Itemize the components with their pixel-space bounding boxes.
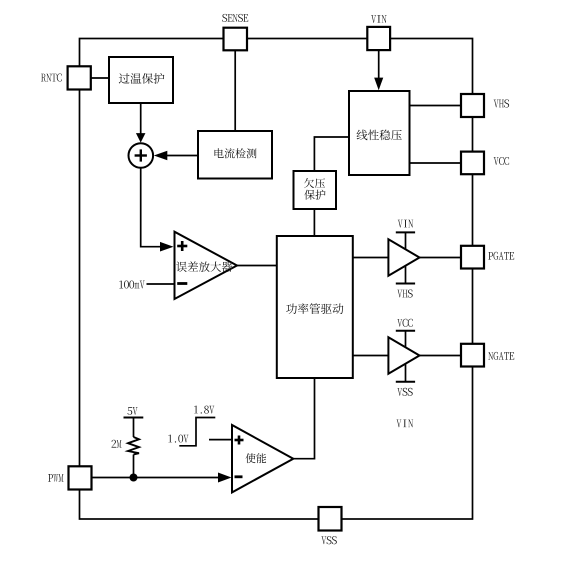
VSS rail bar below NGATE buffer (396, 381, 415, 383)
wire NGATE buffer to NGATE pin (420, 355, 462, 357)
pin RNTC (68, 66, 91, 89)
pin VSS (319, 507, 342, 531)
label VHS (494, 99, 509, 107)
buffer driver to NGATE (405, 332, 407, 350)
wire current-sense to summing node (arrow left) (166, 155, 198, 157)
wire UVLO to linear regulator (314, 137, 349, 172)
op-amp error amplifier 误差放大器 (175, 232, 238, 299)
error amp + sign (177, 245, 187, 248)
enable + sign (235, 439, 244, 442)
resistor 2M leads (133, 418, 135, 437)
label 2M (112, 440, 122, 448)
wire VIN pin down to linear regulator (arrow) (378, 50, 380, 79)
wire linear regulator to VCC pin (410, 162, 462, 164)
label SENSE (222, 14, 248, 22)
VIN rail bar above PGATE buffer (396, 231, 415, 233)
label 1.0V (168, 435, 188, 443)
wire RNTC to over-temp block (91, 77, 110, 79)
resistor 2M zigzag (128, 437, 139, 455)
pin PGATE (461, 246, 484, 269)
block over-temperature protection 过温保护 (109, 57, 173, 103)
VHS rail bar below PGATE buffer (396, 283, 415, 285)
wire error-amp output to driver block (236, 265, 277, 267)
label 5V (127, 407, 137, 415)
VCC rail bar above NGATE buffer (396, 330, 415, 332)
wire enable output up to driver block bottom (293, 378, 315, 459)
pin VHS (461, 94, 484, 117)
block UVLO 欠压保护 (294, 171, 337, 209)
error amp - sign (177, 282, 187, 285)
pin VIN (367, 27, 390, 50)
pin VCC (461, 152, 484, 175)
label VIN top (371, 15, 386, 23)
wire linear regulator to VHS pin (410, 105, 462, 107)
pin PWM (69, 466, 92, 489)
wire driver to PGATE buffer (353, 257, 388, 259)
label PWM (48, 474, 63, 482)
wire summing node to error-amp + input (141, 168, 162, 247)
label VCC (494, 157, 509, 165)
wire PWM to enable - input (arrow) (92, 477, 222, 479)
block gate driver 功率管驱动 (277, 236, 353, 378)
junction dot on PWM wire (130, 474, 138, 482)
wire PGATE buffer to PGATE pin (420, 257, 462, 259)
label VIN mid-right (396, 420, 413, 428)
label VSS bottom (321, 536, 336, 544)
label PGATE (488, 252, 514, 260)
comparator enable 使能 (232, 425, 293, 492)
wire driver to NGATE buffer (353, 355, 388, 357)
pin NGATE (461, 344, 484, 367)
label RNTC (41, 74, 62, 82)
block linear regulator 线性稳压 (349, 91, 410, 175)
wire UVLO down to driver block (313, 209, 315, 237)
label 100mV (119, 281, 144, 289)
wire SENSE down to current-sense block (234, 50, 236, 132)
wire into enable + input (209, 439, 233, 441)
5V supply bar (124, 417, 144, 419)
chip outline border (80, 39, 473, 520)
buffer driver to PGATE (405, 233, 407, 251)
pin SENSE (224, 28, 248, 51)
1.0V->1.8V step symbol (179, 418, 215, 446)
wire over-temp to summing node (vertical, arrow) (140, 103, 142, 134)
label NGATE (488, 352, 514, 360)
label 1.8V (194, 406, 214, 414)
block current sense 电流检测 (198, 131, 272, 179)
wire 100mV to error-amp - input (147, 283, 175, 285)
enable - sign (235, 475, 243, 478)
summing node (129, 143, 154, 168)
